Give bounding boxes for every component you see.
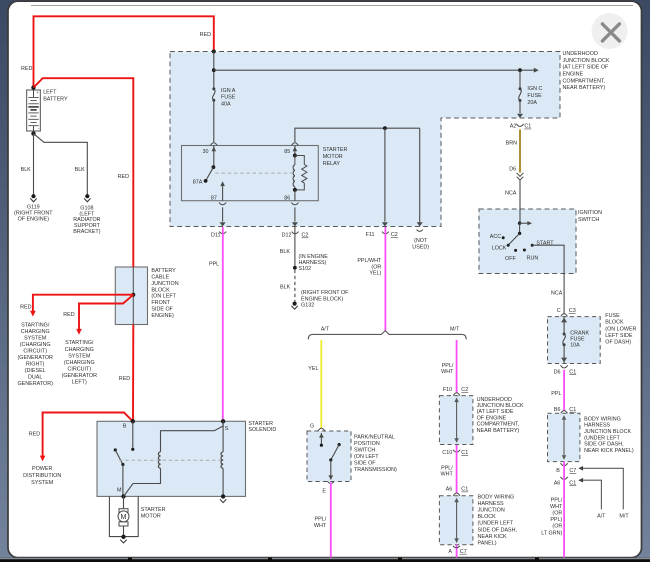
svg-text:SIDE OF: SIDE OF [151, 307, 173, 313]
svg-text:20A: 20A [527, 100, 537, 106]
svg-text:COMPARTMENT,: COMPARTMENT, [563, 78, 606, 84]
svg-text:CABLE: CABLE [151, 275, 169, 281]
svg-text:STARTER: STARTER [323, 147, 348, 153]
solenoid switch lever [114, 448, 117, 451]
relay pin 87 wire [222, 186, 224, 201]
svg-text:C: C [557, 308, 561, 314]
svg-text:(DIESEL: (DIESEL [25, 368, 46, 374]
svg-text:SIDE OF: SIDE OF [354, 460, 376, 466]
svg-text:A: A [448, 549, 452, 555]
node solenoid M terminal [121, 494, 125, 498]
svg-text:C1: C1 [461, 450, 468, 456]
svg-text:G132: G132 [301, 303, 314, 309]
svg-text:A6: A6 [446, 487, 453, 493]
svg-text:TRANSMISSION): TRANSMISSION) [354, 467, 397, 473]
wire to not-used terminal [419, 128, 421, 222]
ignition switch box [479, 209, 576, 274]
inner panel top hairline [31, 5, 633, 7]
svg-text:G: G [310, 423, 314, 429]
svg-text:BRN: BRN [506, 140, 517, 146]
svg-text:YEL): YEL) [369, 271, 381, 277]
wire NCA D6 to ignition switch [519, 180, 521, 223]
svg-text:SIDE OF DASH,: SIDE OF DASH, [584, 442, 624, 448]
relay resistor [295, 156, 304, 165]
svg-text:LEFT): LEFT) [72, 380, 87, 386]
svg-text:M/T: M/T [450, 326, 460, 332]
relay linkage dashed [215, 172, 292, 174]
svg-text:(UNDER LEFT: (UNDER LEFT [478, 521, 514, 527]
svg-text:C2: C2 [391, 232, 398, 238]
node at dashed border x214 [212, 50, 216, 54]
svg-text:UNDERHOOD: UNDERHOOD [477, 397, 512, 403]
svg-text:JUNCTION BLOCK: JUNCTION BLOCK [584, 429, 631, 435]
svg-text:(GENERATOR: (GENERATOR [17, 355, 53, 361]
node motor ground [121, 535, 125, 539]
svg-text:FUSE: FUSE [221, 95, 236, 101]
fuse block box (crank fuse) [548, 317, 601, 364]
svg-text:NEAR KICK: NEAR KICK [478, 534, 507, 540]
svg-text:40A: 40A [221, 101, 231, 107]
connector D11 [219, 232, 226, 234]
svg-text:BLOCK: BLOCK [605, 320, 624, 326]
svg-text:SYSTEM: SYSTEM [68, 353, 91, 359]
svg-text:WHT: WHT [550, 504, 563, 510]
svg-text:87A: 87A [193, 180, 203, 186]
wire PPL/WHT brace to F10 [456, 340, 458, 393]
svg-text:C1: C1 [569, 407, 576, 413]
wire YEL brace to park/neutral switch G [320, 340, 322, 428]
solenoid case ground [221, 494, 225, 498]
wire feed horizontal to right arrow [214, 69, 536, 71]
wire IGN C fuse to A2 [519, 101, 521, 114]
svg-text:MOTOR: MOTOR [141, 514, 161, 520]
ground G108 [85, 194, 89, 198]
svg-text:C3: C3 [569, 308, 576, 314]
splice S102 [293, 266, 297, 270]
node solenoid S terminal [221, 419, 225, 423]
svg-text:C2: C2 [302, 233, 309, 239]
svg-text:87: 87 [211, 196, 217, 202]
svg-text:RED: RED [119, 376, 130, 382]
svg-text:S102: S102 [299, 266, 312, 272]
relay switch common node [212, 165, 216, 169]
svg-text:BLK: BLK [21, 167, 32, 173]
svg-text:NCA: NCA [505, 191, 517, 197]
svg-text:CHARGING: CHARGING [21, 329, 50, 335]
svg-text:85: 85 [284, 149, 290, 155]
fuse CRANK 10A [563, 333, 566, 336]
ignition switch lever to LOCK [508, 233, 519, 245]
connector D12 C2 [292, 232, 299, 234]
svg-text:A6: A6 [554, 480, 561, 486]
svg-text:(CHARGING: (CHARGING [64, 360, 95, 366]
svg-text:RED: RED [20, 305, 31, 311]
fuse IGN C 20A [519, 70, 521, 89]
svg-text:E: E [322, 488, 326, 494]
battery cable junction block internal conductor [132, 267, 134, 325]
svg-text:C7: C7 [460, 549, 467, 555]
svg-text:A/T: A/T [321, 326, 330, 332]
svg-text:RIGHT): RIGHT) [26, 362, 45, 368]
battery cable junction block box [115, 267, 147, 325]
svg-text:MOTOR: MOTOR [323, 154, 343, 160]
svg-text:STARTING/: STARTING/ [65, 340, 94, 346]
wire BLK battery to G108 [34, 134, 88, 197]
svg-text:OF ENGINE): OF ENGINE) [18, 217, 50, 223]
svg-text:NEAR BATTERY): NEAR BATTERY) [477, 428, 520, 434]
solenoid linkage dashed [119, 459, 221, 461]
relay pin 86 wire [294, 190, 296, 201]
svg-text:RED: RED [21, 66, 32, 72]
relay coil node bottom [293, 188, 297, 192]
svg-text:C1: C1 [569, 480, 576, 486]
svg-text:POSITION: POSITION [354, 441, 380, 447]
node battery positive [31, 85, 35, 89]
connector E park/neutral [327, 481, 334, 483]
svg-text:PPL: PPL [209, 262, 219, 268]
svg-text:D11: D11 [211, 232, 221, 238]
svg-text:JUNCTION BLOCK: JUNCTION BLOCK [563, 58, 610, 64]
wire RED junction block to solenoid B [132, 325, 134, 422]
underhood junction block F10 internal wire [456, 399, 458, 442]
relay contact 87A [204, 179, 208, 183]
underhood junction block box F10 [439, 396, 473, 445]
wire relay 86 to D12 [291, 202, 298, 204]
connector D6 C1 (fuse block out) [561, 365, 568, 368]
wire RED battery to fuse block top [34, 16, 214, 87]
arrow B C7 from M/T [578, 466, 583, 471]
svg-text:CIRCUIT): CIRCUIT) [67, 366, 91, 372]
svg-text:RED: RED [63, 312, 74, 318]
svg-text:C10: C10 [442, 450, 452, 456]
svg-text:JUNCTION: JUNCTION [151, 281, 178, 287]
svg-text:RED: RED [200, 32, 211, 38]
solenoid M to pull-in coil [124, 468, 161, 496]
svg-text:BLK: BLK [280, 249, 291, 255]
ignition switch internals [518, 222, 521, 225]
wire BLK battery to G119 [33, 134, 35, 197]
svg-text:FRONT: FRONT [151, 300, 170, 306]
svg-text:PPL/: PPL/ [442, 363, 454, 369]
svg-text:UNDERHOOD: UNDERHOOD [563, 51, 598, 57]
svg-text:JUNCTION BLOCK: JUNCTION BLOCK [477, 403, 524, 409]
svg-text:ENGINE BLOCK): ENGINE BLOCK) [301, 296, 343, 302]
svg-text:DISTRIBUTION: DISTRIBUTION [23, 473, 61, 479]
svg-text:(CHARGING: (CHARGING [20, 342, 51, 348]
ground G119 [31, 194, 35, 198]
wire PPL D6 to B6 [563, 370, 565, 411]
starter motor M1 [123, 496, 125, 508]
svg-text:86: 86 [284, 196, 290, 202]
svg-text:OF ENGINE: OF ENGINE [477, 415, 507, 421]
wire IGN A fuse to relay pin 30 [213, 100, 215, 142]
svg-text:PANEL): PANEL) [478, 540, 497, 546]
svg-text:GENERATOR): GENERATOR) [17, 381, 53, 387]
svg-text:WHT: WHT [314, 523, 327, 529]
svg-text:(RIGHT FRONT OF: (RIGHT FRONT OF [301, 290, 349, 296]
svg-text:30: 30 [203, 149, 209, 155]
svg-text:(OR: (OR [371, 264, 381, 270]
connector B C7 [561, 463, 568, 466]
svg-text:(ON LEFT: (ON LEFT [354, 454, 379, 460]
svg-text:(NOT: (NOT [414, 238, 428, 244]
split brace A/T M/T [308, 331, 466, 340]
svg-text:BATTERY: BATTERY [151, 268, 176, 274]
connector F10 C2 [453, 393, 460, 396]
solenoid lever to M [122, 465, 124, 497]
svg-text:(ON LEFT: (ON LEFT [151, 294, 176, 300]
svg-text:BRACKET): BRACKET) [73, 229, 100, 235]
svg-text:10A: 10A [570, 343, 580, 349]
svg-text:SYSTEM: SYSTEM [24, 335, 47, 341]
svg-text:SOLENOID: SOLENOID [248, 427, 276, 433]
svg-text:PPL: PPL [551, 391, 561, 397]
wire PPL/WHT B down [563, 462, 565, 558]
relay switch lever [206, 167, 214, 180]
connector A C7 [453, 546, 460, 548]
wire RED to generator right [33, 295, 133, 312]
svg-text:(OR: (OR [552, 524, 562, 530]
svg-text:SWITCH: SWITCH [578, 217, 599, 223]
svg-text:ENGINE: ENGINE [563, 71, 584, 77]
wire PPL/WHT F11 down [384, 227, 386, 331]
connector A6 C1 (right) [561, 477, 568, 480]
wire PPL/WHT A6 box down to A [456, 545, 458, 558]
wire START to fuse block [532, 245, 564, 313]
svg-text:BLOCK: BLOCK [478, 514, 497, 520]
connector A6 C1 (left) [453, 493, 460, 496]
node feed split [212, 68, 216, 72]
wire PPL/WHT park/neutral E down [330, 483, 332, 559]
fuse IGN A 40A [212, 87, 215, 90]
svg-text:C1: C1 [524, 124, 531, 130]
connector C10 C1 [453, 450, 460, 453]
svg-text:CHARGING: CHARGING [65, 347, 94, 353]
svg-text:NEAR KICK PANEL): NEAR KICK PANEL) [584, 448, 634, 454]
svg-text:PPL/: PPL/ [315, 517, 327, 523]
svg-text:LOCK: LOCK [492, 245, 507, 251]
starter solenoid box [97, 421, 246, 496]
svg-text:HARNESS: HARNESS [478, 501, 504, 507]
node F11 tap [383, 126, 387, 130]
starter motor housing loop [109, 496, 138, 536]
svg-text:RUN: RUN [527, 256, 539, 262]
svg-text:BODY WIRING: BODY WIRING [478, 495, 515, 501]
svg-text:POWER: POWER [32, 466, 52, 472]
svg-text:A2: A2 [510, 124, 517, 130]
node solenoid B terminal [131, 419, 135, 423]
bottom taskbar strip [0, 558, 650, 562]
svg-text:(AT LEFT SIDE: (AT LEFT SIDE [477, 409, 514, 415]
svg-text:B: B [556, 468, 560, 474]
wire PPL/WHT C10 to A6 [456, 445, 458, 493]
wire BRN A2 to D6 [519, 130, 521, 173]
svg-text:D6: D6 [554, 369, 561, 375]
svg-text:B6: B6 [554, 407, 561, 413]
svg-text:RED: RED [29, 431, 40, 437]
solenoid pull-in coil [158, 452, 160, 456]
svg-text:WHT: WHT [441, 471, 454, 477]
wire RED battery to battery cable junction block [34, 78, 134, 267]
wire into crank fuse [563, 317, 565, 334]
connector B6 C1 [561, 411, 568, 414]
svg-text:C1: C1 [461, 487, 468, 493]
svg-text:STARTER: STARTER [141, 507, 166, 513]
svg-text:PPL/: PPL/ [551, 498, 563, 504]
svg-text:M: M [117, 488, 122, 494]
svg-text:SYSTEM: SYSTEM [31, 480, 54, 486]
body wiring harness junction block A6 internal wire [456, 499, 458, 542]
connector F11 C2 [382, 232, 389, 234]
svg-text:S: S [225, 426, 229, 432]
svg-text:M/T: M/T [619, 514, 629, 520]
svg-text:CIRCUIT): CIRCUIT) [23, 349, 47, 355]
svg-text:COMPARTMENT,: COMPARTMENT, [477, 422, 520, 428]
svg-text:F10: F10 [443, 387, 452, 393]
svg-text:USED): USED) [412, 244, 429, 250]
svg-text:RED: RED [118, 174, 129, 180]
svg-text:SWITCH: SWITCH [354, 447, 375, 453]
wire RED to generator left [79, 295, 133, 330]
connector A2 C1 [516, 124, 523, 127]
wire PPL D11 to solenoid S [222, 227, 224, 421]
svg-text:LEFT: LEFT [43, 89, 57, 95]
svg-text:STARTING/: STARTING/ [21, 322, 50, 328]
svg-text:(GENERATOR: (GENERATOR [62, 373, 98, 379]
svg-text:PPL/WHT: PPL/WHT [357, 258, 382, 264]
battery B1 [27, 90, 41, 131]
svg-text:OF DASH): OF DASH) [605, 340, 631, 346]
svg-text:+: + [36, 90, 39, 95]
node IGN C tap [518, 68, 522, 72]
svg-text:PPL): PPL) [550, 517, 562, 523]
svg-text:C2: C2 [461, 387, 468, 393]
solenoid S wire to coils [161, 421, 224, 452]
ignition switch position contacts [502, 236, 505, 239]
park/neutral switch internals [320, 433, 322, 445]
svg-text:M: M [121, 512, 127, 521]
motor ground symbol [120, 540, 126, 543]
wire fuse feed vertical IGN A [213, 52, 215, 89]
relay pin 30 wire [213, 146, 215, 168]
wire BLK dashed S102 to G132 [294, 270, 296, 302]
svg-text:(AT LEFT SIDE OF: (AT LEFT SIDE OF [563, 65, 610, 71]
park/neutral position switch box [307, 431, 351, 482]
svg-text:FUSE: FUSE [527, 93, 542, 99]
svg-text:B: B [123, 423, 127, 429]
arrow A6 C1 from A/T [578, 478, 583, 483]
svg-text:(UNDER LEFT: (UNDER LEFT [584, 435, 620, 441]
svg-text:HARNESS: HARNESS [584, 423, 610, 429]
body wiring harness junction block B6 internal wire [563, 416, 565, 459]
connector cap relay pin 85 [292, 143, 299, 146]
svg-text:BLK: BLK [280, 285, 291, 291]
relay coil node top [293, 154, 297, 158]
solenoid hold-in coil [222, 421, 224, 452]
svg-text:(ON LOWER: (ON LOWER [605, 326, 636, 332]
body wiring harness junction block box A6 (left) [439, 496, 473, 545]
svg-text:LEFT SIDE: LEFT SIDE [605, 333, 633, 339]
svg-text:FUSE: FUSE [605, 313, 620, 319]
svg-text:OFF: OFF [505, 256, 516, 262]
svg-text:(OR: (OR [552, 511, 562, 517]
svg-text:F11: F11 [366, 232, 375, 238]
svg-text:LT GRN): LT GRN) [541, 530, 562, 536]
relay coil [294, 156, 296, 165]
svg-text:RELAY: RELAY [323, 161, 341, 167]
wire relay 87 to D11 [219, 202, 226, 204]
body wiring harness junction block box B6 (right) [548, 413, 580, 461]
starter motor relay box [182, 146, 319, 201]
svg-text:ACC: ACC [490, 234, 501, 240]
svg-text:BODY WIRING: BODY WIRING [584, 416, 621, 422]
svg-text:C1: C1 [569, 369, 576, 375]
svg-text:IGN A: IGN A [221, 88, 236, 94]
node battery cable junction [131, 293, 135, 297]
svg-text:D12: D12 [282, 232, 292, 238]
svg-text:BATTERY: BATTERY [43, 96, 68, 102]
svg-text:YEL: YEL [308, 366, 318, 372]
svg-text:DUAL: DUAL [28, 375, 42, 381]
svg-text:NEAR BATTERY): NEAR BATTERY) [563, 85, 606, 91]
wire BLK D12 to S102 [294, 227, 296, 268]
ground G132 [293, 302, 297, 306]
wire to F11 [384, 128, 386, 221]
wire relay 85 branch to F11 and not-used [295, 128, 420, 142]
svg-text:JUNCTION: JUNCTION [478, 508, 505, 514]
svg-text:ENGINE): ENGINE) [151, 313, 174, 319]
solenoid B wire to contact [132, 421, 134, 449]
svg-text:PARK/NEUTRAL: PARK/NEUTRAL [354, 434, 395, 440]
svg-text:C7: C7 [569, 468, 576, 474]
svg-text:A/T: A/T [597, 514, 606, 520]
connector C C3 [561, 314, 568, 317]
svg-text:D6: D6 [509, 167, 516, 173]
connector cap relay pin 30 [210, 143, 217, 146]
svg-text:BLK: BLK [75, 167, 86, 173]
wire crank fuse to D6 C1 [563, 345, 565, 364]
close button [592, 13, 628, 49]
svg-text:NCA: NCA [551, 290, 563, 296]
wire RED to power distribution system [43, 413, 133, 457]
svg-text:IGNITION: IGNITION [578, 210, 602, 216]
relay pin 85 wire [294, 146, 296, 156]
svg-text:IGN C: IGN C [527, 86, 542, 92]
underhood junction block region (dashed box, L-shape) [170, 52, 560, 227]
svg-text:SIDE OF DASH,: SIDE OF DASH, [478, 527, 518, 533]
svg-text:WHT: WHT [441, 369, 454, 375]
node battery negative [31, 131, 35, 135]
svg-text:BLOCK: BLOCK [151, 287, 170, 293]
